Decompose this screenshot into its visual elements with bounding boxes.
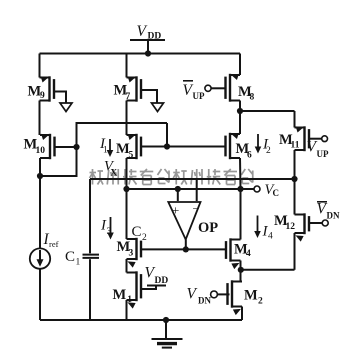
svg-text:2: 2 [142, 233, 147, 243]
svg-text:DN: DN [198, 296, 211, 306]
svg-text:OP: OP [198, 220, 218, 236]
svg-text:3: 3 [129, 249, 134, 259]
svg-text:12: 12 [286, 222, 296, 232]
svg-text:UP: UP [317, 149, 329, 159]
svg-text:V: V [187, 286, 198, 303]
svg-text:ref: ref [49, 239, 59, 249]
svg-text:X: X [111, 168, 118, 178]
svg-text:4: 4 [268, 232, 273, 242]
svg-text:2: 2 [266, 146, 271, 156]
svg-text:4: 4 [246, 249, 251, 259]
svg-text:1: 1 [76, 258, 81, 268]
svg-text:M: M [244, 288, 258, 304]
svg-text:1: 1 [103, 146, 108, 156]
svg-text:DD: DD [155, 276, 169, 286]
svg-text:5: 5 [129, 151, 134, 161]
svg-text:M: M [113, 287, 127, 303]
svg-text:−: − [193, 202, 200, 216]
svg-text:6: 6 [247, 151, 252, 161]
svg-text:DN: DN [327, 211, 340, 221]
svg-text:C: C [273, 188, 280, 198]
svg-text:UP: UP [193, 91, 205, 101]
svg-text:7: 7 [126, 92, 131, 102]
svg-text:C: C [65, 249, 75, 265]
svg-text:V: V [137, 23, 148, 40]
svg-text:11: 11 [291, 141, 300, 151]
svg-text:10: 10 [36, 146, 46, 156]
svg-text:2: 2 [258, 297, 263, 307]
svg-text:9: 9 [40, 91, 45, 101]
svg-text:1: 1 [127, 295, 132, 305]
svg-text:3: 3 [107, 227, 112, 237]
svg-text:DD: DD [148, 32, 162, 42]
svg-text:C: C [132, 224, 142, 240]
svg-text:+: + [172, 203, 179, 218]
svg-text:8: 8 [250, 93, 255, 103]
